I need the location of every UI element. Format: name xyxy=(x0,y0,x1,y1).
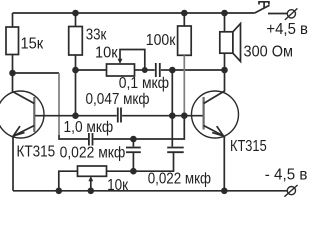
terminal +4,5 slash xyxy=(285,8,298,20)
wire y=139 right + corner up to base node xyxy=(133,116,184,139)
node pot wiper junction xyxy=(142,67,148,73)
wire pot R6 right lead xyxy=(107,170,134,172)
transistor V2 emitter xyxy=(204,126,224,136)
resistor R1 15к body xyxy=(6,27,19,55)
capacitor C2 1,0 мкф bars xyxy=(117,108,119,123)
node base V1 xyxy=(72,112,79,119)
wire emitter V2 down xyxy=(223,136,225,191)
svg-text:15к: 15к xyxy=(21,36,45,53)
node R6 wiper on rail xyxy=(88,188,95,195)
transistor V2 collector xyxy=(204,70,225,104)
node emitter V2 on rail xyxy=(221,188,228,195)
node C1 out xyxy=(169,67,176,74)
node collector V1 / R1 junction xyxy=(9,70,16,77)
wiper arrow R3 xyxy=(118,59,123,64)
transistor V1 base bar xyxy=(33,97,35,132)
transistor V1 collector xyxy=(13,73,35,104)
node speaker top xyxy=(221,10,228,17)
svg-text:100к: 100к xyxy=(146,32,176,49)
capacitor C6 0,022 plates xyxy=(167,147,184,149)
wire 100k top lead xyxy=(183,13,185,26)
node 100k top xyxy=(181,10,188,17)
terminal -4,5 circle xyxy=(287,187,295,195)
capacitor C4 0,022 bars xyxy=(88,133,90,146)
switch S1 actuator stem xyxy=(263,2,265,8)
wire gray vertical crossing x=59 xyxy=(58,73,60,135)
svg-text:0,047 мкф: 0,047 мкф xyxy=(86,91,150,108)
svg-text:КТ315: КТ315 xyxy=(230,138,267,155)
node C5 top xyxy=(130,136,137,143)
wire C5 bottom lead xyxy=(132,153,134,171)
resistor R2 33к body xyxy=(69,27,83,56)
wire 33k bottom lead xyxy=(75,55,77,70)
wire 15k column top xyxy=(12,13,14,27)
wire base net middle right xyxy=(122,115,202,117)
transistor V1 circle xyxy=(0,91,44,138)
resistor R4 100к body xyxy=(178,26,192,55)
svg-text:33к: 33к xyxy=(86,26,107,43)
node base net left xyxy=(169,112,176,119)
wiper arm R3 xyxy=(120,50,145,71)
node 33k top xyxy=(72,10,79,17)
terminal -4,5 slash xyxy=(284,185,297,197)
node base V2 xyxy=(181,112,188,119)
speaker B1 box xyxy=(220,32,233,53)
node R2 / pot junction xyxy=(72,67,79,74)
capacitor C5 0,022 plates xyxy=(126,147,141,149)
node C5 bottom / pot R6 right xyxy=(130,168,137,175)
wiper arrow R6 xyxy=(88,176,93,181)
wire base net middle left xyxy=(76,115,117,117)
wiper stem R6 xyxy=(90,181,92,191)
wire down to base V1 xyxy=(75,70,77,116)
svg-text:КТ315: КТ315 xyxy=(17,143,56,160)
wire base V1 xyxy=(35,115,76,117)
node collector V2 / speaker xyxy=(221,67,228,74)
svg-text:1,0 мкф: 1,0 мкф xyxy=(64,119,114,136)
svg-text:+4,5 в: +4,5 в xyxy=(266,21,308,38)
wire 33k top lead xyxy=(75,13,77,27)
transistor V2 circle xyxy=(192,91,239,138)
wire pot R6 left lead xyxy=(59,171,78,191)
terminal +4,5 circle xyxy=(287,10,295,18)
switch S1 lever xyxy=(255,5,270,13)
wire C5 top lead xyxy=(132,139,134,147)
wire C6 bottom lead xyxy=(133,153,173,171)
wire collector V1 to down-jog horizontal xyxy=(13,72,60,74)
svg-text:- 4,5 в: - 4,5 в xyxy=(265,167,308,184)
wire top supply rail xyxy=(13,12,255,14)
wire corner x=59 to y=139 xyxy=(59,135,88,139)
potentiometer R3 10к body xyxy=(107,64,135,76)
wire C1 right lead xyxy=(161,69,172,71)
svg-text:10к: 10к xyxy=(107,177,129,194)
emitter arrow V2 xyxy=(212,126,223,136)
svg-text:300 Ом: 300 Ом xyxy=(244,44,294,61)
wire y=139 middle xyxy=(93,138,133,140)
wire 15k bottom lead xyxy=(12,55,14,74)
transistor V2 base bar xyxy=(203,97,205,130)
transistor V1 emitter xyxy=(13,126,34,137)
svg-text:0,022 мкф: 0,022 мкф xyxy=(148,171,211,188)
wire speaker top lead xyxy=(224,13,226,32)
svg-text:0,1 мкф: 0,1 мкф xyxy=(119,75,169,92)
wire speaker bottom lead xyxy=(224,53,226,70)
wire pot right lead xyxy=(135,69,145,71)
speaker B1 cone xyxy=(233,24,241,62)
capacitor C1 0,1 мкф bars xyxy=(155,63,157,77)
node R6 left on rail xyxy=(56,188,63,195)
emitter arrow V1 xyxy=(13,126,24,136)
wire bottom rail xyxy=(13,190,287,192)
wire switch to terminal xyxy=(268,13,287,15)
svg-text:10к: 10к xyxy=(95,45,119,62)
wire x=172 vertical to base net and C6 xyxy=(171,70,173,147)
switch S1 actuator xyxy=(259,2,269,5)
wire emitter V1 down xyxy=(12,136,14,191)
wire 100k bottom gray crossing lead xyxy=(183,55,185,112)
svg-text:0,022 мкф: 0,022 мкф xyxy=(60,144,126,161)
potentiometer R6 10к body xyxy=(78,166,107,176)
wire C1 out to collector V2 xyxy=(172,69,224,71)
wire pot left lead xyxy=(76,69,107,71)
wire to C1 xyxy=(145,69,155,71)
